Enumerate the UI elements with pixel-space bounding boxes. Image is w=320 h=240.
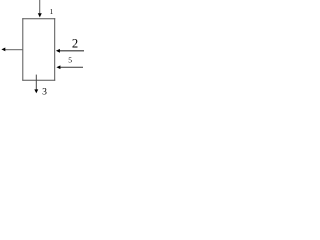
arrowhead right upper inlet [56, 49, 60, 53]
wire: top inlet stream shaft [39, 0, 41, 14]
svg-text:5: 5 [68, 56, 72, 65]
wire: right upper inlet stream shaft [58, 50, 84, 52]
svg-text:3: 3 [42, 86, 47, 97]
wire: left outlet stream shaft [4, 49, 23, 51]
arrowhead top inlet [38, 13, 42, 17]
wire: right lower inlet stream shaft [59, 66, 84, 68]
background [0, 0, 86, 99]
wire: bottom outlet stream shaft [35, 75, 37, 90]
arrowhead right lower inlet [56, 65, 60, 69]
arrowhead bottom outlet [34, 89, 38, 93]
arrowhead left outlet [1, 48, 5, 52]
process unit block [22, 18, 55, 80]
process block diagram [0, 0, 86, 99]
svg-text:1: 1 [50, 8, 54, 16]
svg-text:2: 2 [72, 37, 78, 51]
